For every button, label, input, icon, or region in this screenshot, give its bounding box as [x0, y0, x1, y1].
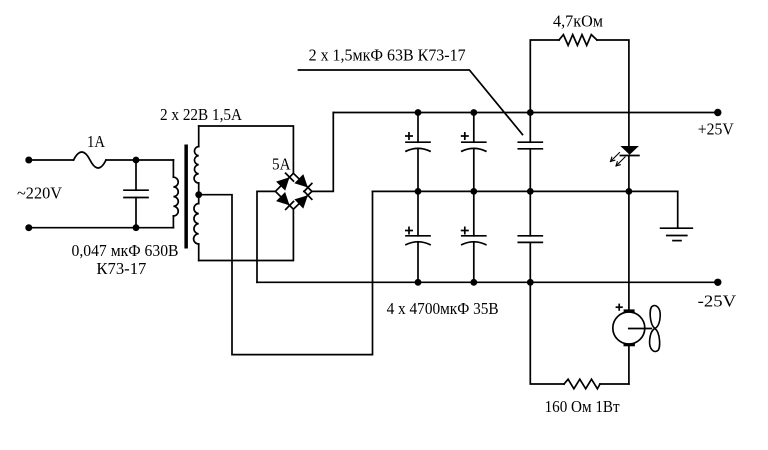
svg-text:2 х 1,5мкФ 63В К73-17: 2 х 1,5мкФ 63В К73-17 — [309, 46, 466, 65]
node -25V terminal — [714, 279, 721, 286]
wire secondary top to bridge — [199, 126, 294, 173]
fan propeller lower blade — [650, 329, 660, 352]
ground — [661, 191, 693, 240]
fan motor M1 body — [613, 312, 645, 344]
bridge diode bottom-left — [276, 192, 290, 205]
capacitor C2 4700мкФ — [405, 113, 430, 192]
wire -25V rail to R2 — [530, 282, 564, 384]
wire R1 to LED column — [597, 40, 629, 146]
-25V rail — [257, 281, 718, 283]
transformer T1 secondary winding lower — [194, 195, 199, 261]
fan shaft — [629, 328, 652, 330]
fan propeller upper blade — [650, 306, 660, 329]
label pointer line — [299, 70, 523, 135]
resistor R1 zigzag — [559, 35, 597, 46]
bridge rectifier diamond — [275, 173, 312, 209]
center tap junction — [195, 191, 202, 198]
input terminal top — [25, 157, 32, 164]
+25V rail — [333, 112, 718, 114]
junction bottom rail C7 — [527, 279, 534, 286]
bridge diode bottom-right — [294, 195, 308, 208]
transformer T1 secondary winding upper — [194, 126, 199, 195]
wire LED cathode to ground rail — [628, 156, 630, 192]
transformer T1 primary winding — [173, 160, 178, 228]
fan motor M1 plus mark — [616, 304, 623, 311]
svg-text:К73-17: К73-17 — [96, 259, 146, 278]
LED emission arrows — [611, 153, 626, 167]
capacitor C3 4700мкФ — [461, 113, 486, 192]
fan motor M1 top brush — [625, 309, 633, 312]
svg-text:-25V: -25V — [698, 292, 737, 311]
capacitor C7 1,5мкФ film — [518, 191, 542, 282]
junction top rail C4 — [527, 109, 534, 116]
svg-text:4 х 4700мкФ 35В: 4 х 4700мкФ 35В — [387, 299, 499, 318]
svg-text:4,7кОм: 4,7кОм — [553, 12, 604, 31]
wire R2 to fan — [600, 383, 629, 385]
svg-text:5А: 5А — [272, 155, 291, 174]
junction mid rail C3 — [470, 188, 477, 195]
wire fan to R2 — [628, 346, 630, 384]
capacitor C4 1,5мкФ film — [518, 113, 542, 192]
wire ground rail to fan — [628, 191, 630, 309]
LED VD1 cathode bar — [620, 155, 639, 157]
junction top of C1 — [133, 157, 140, 164]
LED VD1 triangle — [620, 146, 639, 155]
ground rail — [373, 190, 678, 192]
capacitor C5 4700мкФ — [405, 191, 430, 282]
fuse FU1 — [74, 152, 107, 168]
junction mid rail LED column — [626, 188, 633, 195]
node +25V terminal — [714, 109, 721, 116]
svg-text:0,047 мкФ 630В: 0,047 мкФ 630В — [72, 241, 179, 260]
junction bottom rail C5 — [415, 279, 422, 286]
resistor R2 zigzag — [564, 379, 600, 389]
wire top input right — [106, 159, 173, 161]
svg-text:160 Ом 1Вт: 160 Ом 1Вт — [545, 397, 620, 416]
wire secondary bottom to bridge — [199, 209, 294, 260]
junction mid rail C2 — [415, 188, 422, 195]
wire bottom input — [29, 227, 174, 229]
svg-text:~220V: ~220V — [17, 184, 62, 203]
fan motor M1 bottom brush — [625, 343, 634, 346]
wire bridge minus to -25V rail — [257, 191, 275, 282]
junction bottom rail C6 — [470, 279, 477, 286]
capacitor C1 0,047мкФ 630В — [124, 160, 148, 228]
capacitor C6 4700мкФ — [461, 191, 486, 282]
junction bottom of C1 — [133, 224, 140, 231]
transformer core — [184, 145, 188, 249]
bridge diode top-left — [276, 177, 289, 190]
resistor R1 4,7кОм branch — [530, 40, 559, 113]
svg-text:1А: 1А — [87, 132, 105, 151]
bridge diode top-right — [294, 174, 308, 187]
junction top rail C3 — [470, 109, 477, 116]
junction mid rail C4 — [527, 188, 534, 195]
wire top input left — [29, 159, 74, 161]
svg-text:+25V: +25V — [698, 119, 734, 138]
wire center tap to ground rail — [199, 191, 373, 354]
input terminal bottom — [25, 224, 32, 231]
junction top rail C2 — [415, 109, 422, 116]
wire bridge plus to +25V rail — [312, 113, 333, 192]
svg-text:2 x 22В 1,5А: 2 x 22В 1,5А — [160, 105, 242, 124]
